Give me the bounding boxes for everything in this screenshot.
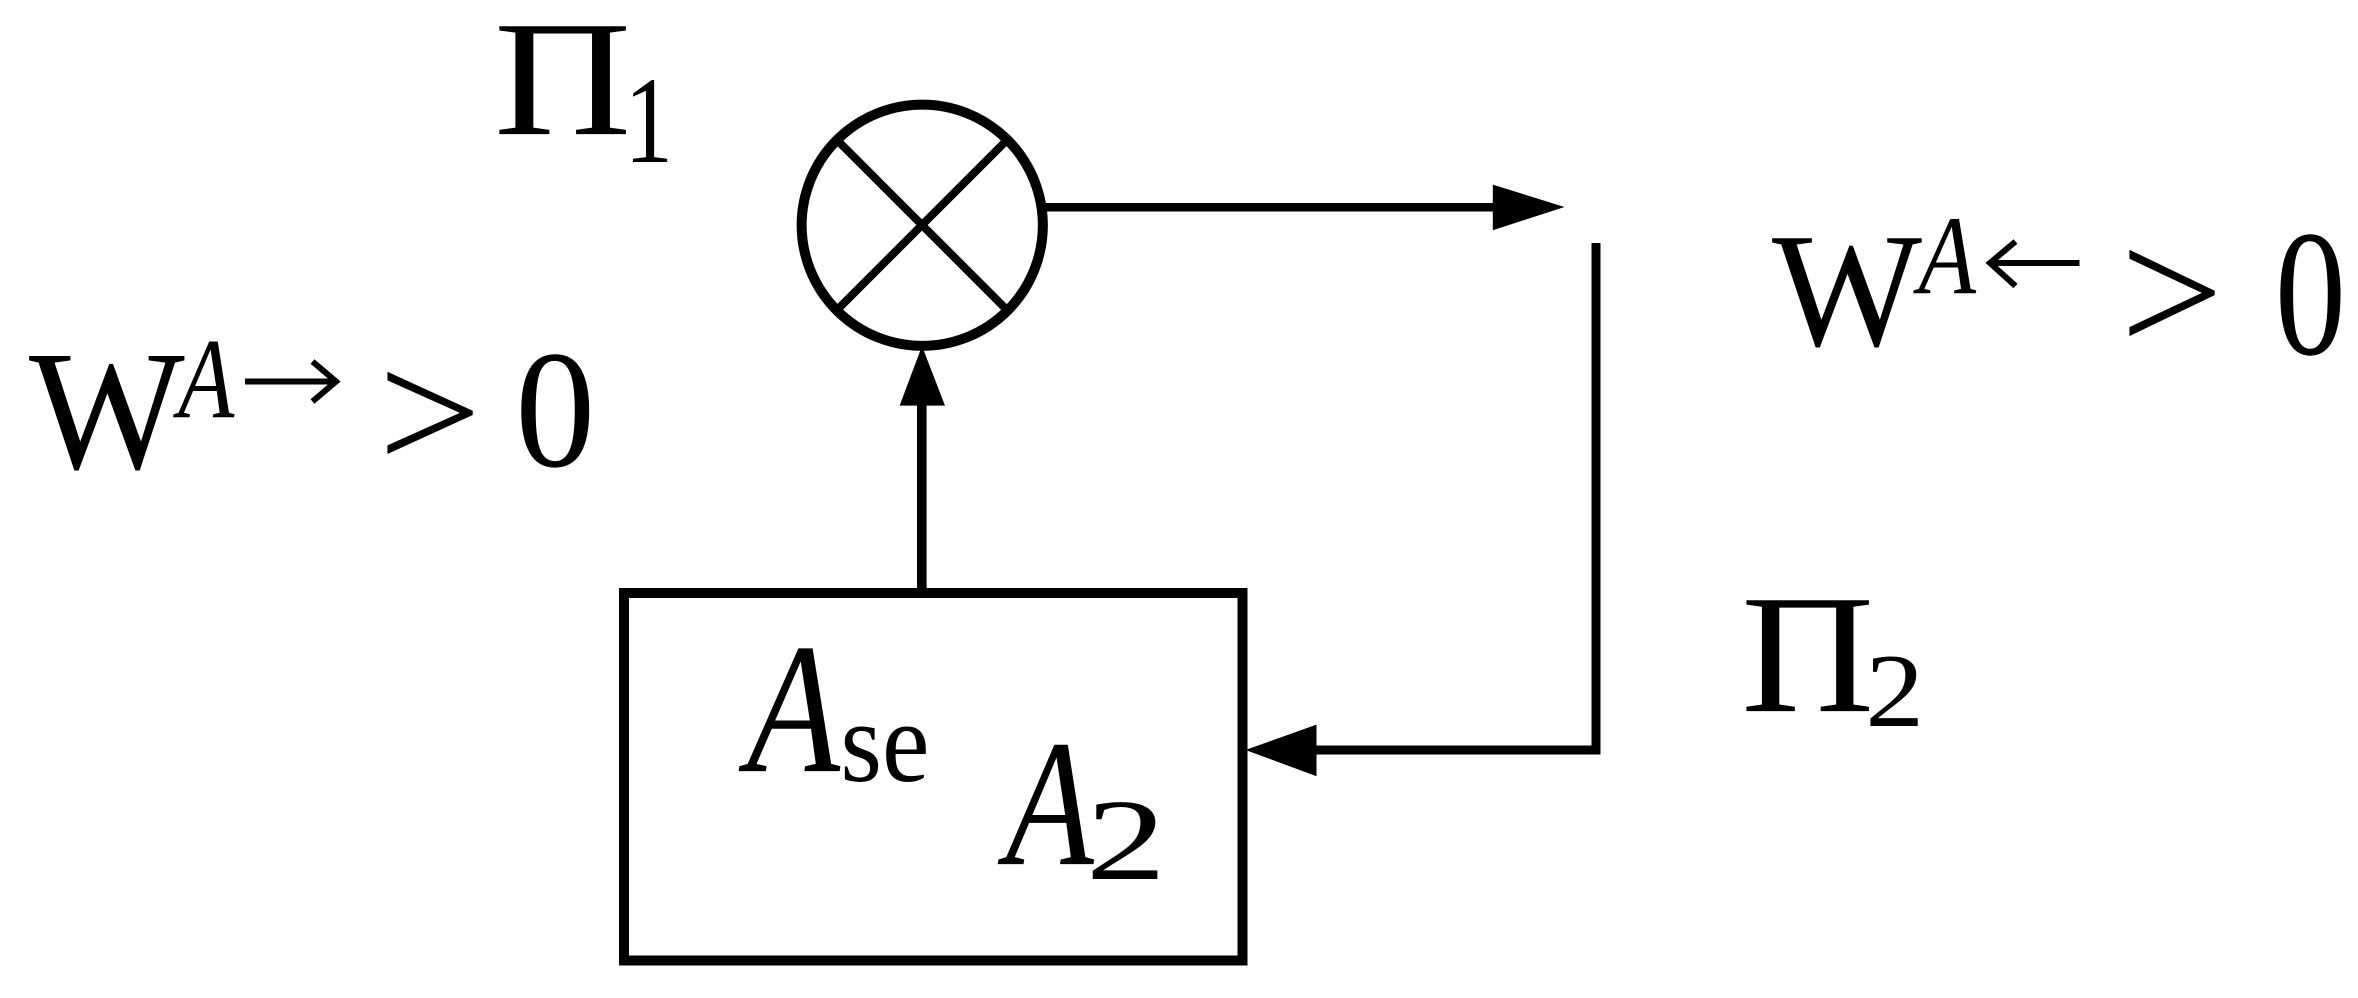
svg-text:2: 2 xyxy=(1086,777,1167,905)
svg-text:>: > xyxy=(2120,194,2223,392)
svg-text:Π: Π xyxy=(1741,561,1874,748)
wire: vertical arrow from box top to multiplier xyxy=(917,400,927,594)
arrowhead pointing right xyxy=(1493,185,1565,231)
svg-text:0: 0 xyxy=(515,317,595,503)
arrowhead pointing left into box xyxy=(1246,725,1317,777)
multiplier cross diagonal NE-SW xyxy=(837,140,1007,310)
svg-text:A: A xyxy=(1913,193,1977,318)
right label superscript left-arrow xyxy=(1990,242,2080,287)
svg-text:1: 1 xyxy=(624,53,673,190)
svg-text:A: A xyxy=(998,704,1095,904)
wire: right vertical feedback line with bottom corner xyxy=(1315,243,1596,750)
svg-text:A: A xyxy=(738,606,841,812)
svg-text:W: W xyxy=(1772,200,1922,380)
svg-text:W: W xyxy=(29,316,185,505)
left label superscript right-arrow xyxy=(245,362,336,402)
svg-text:A: A xyxy=(173,316,235,443)
svg-text:se: se xyxy=(840,680,929,807)
svg-text:Π: Π xyxy=(494,0,632,170)
wire: multiplier output, horizontal xyxy=(1043,203,1497,212)
multiplier circle xyxy=(802,105,1043,346)
svg-text:>: > xyxy=(378,318,481,507)
multiplier cross diagonal NW-SE xyxy=(837,140,1007,310)
arrowhead pointing up xyxy=(900,346,945,406)
svg-text:2: 2 xyxy=(1865,634,1924,749)
box A_se A_2 xyxy=(624,593,1243,961)
svg-text:0: 0 xyxy=(2275,195,2346,394)
